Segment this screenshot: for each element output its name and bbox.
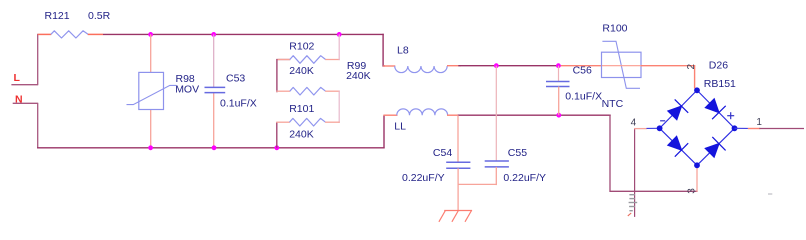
svg-text:R121: R121 [45, 10, 70, 22]
minus mark [660, 120, 665, 122]
diode D26-b (top-right) [705, 99, 725, 119]
svg-text:NTC: NTC [602, 98, 624, 110]
thermistor R100 body [602, 52, 642, 77]
stray mark [768, 193, 772, 195]
wire bridge pin4 stub [634, 128, 647, 130]
wire R99 right vertical to R101 right [338, 91, 340, 123]
wire C56 lower lead [558, 87, 560, 116]
wire LL left stub [383, 114, 397, 116]
junction at R98 top [148, 32, 153, 37]
wire R101 left vertical to bottom rail [276, 122, 278, 148]
bridge pin dots [657, 87, 738, 168]
varistor R98 diagonal [127, 85, 177, 104]
svg-text:0.1uF/X: 0.1uF/X [565, 90, 602, 102]
wire MOV upper lead [150, 34, 152, 72]
wire top rail to R98 junction [103, 33, 384, 35]
svg-text:L8: L8 [397, 45, 409, 57]
bridge pin4 lead [647, 127, 660, 129]
svg-text:2: 2 [686, 64, 697, 70]
wire L8 left stub [383, 65, 395, 67]
svg-text:C55: C55 [508, 147, 527, 159]
wire C53 upper lead [213, 34, 215, 87]
wire L8 right stub [447, 65, 461, 67]
wire R102 left stub [277, 60, 290, 93]
wire top rail corner down to L8 [383, 34, 385, 66]
junction at C53 top [211, 32, 216, 37]
resistor R101 [290, 118, 326, 126]
capacitor C56 plates [546, 81, 570, 83]
svg-text:0.22uF/Y: 0.22uF/Y [503, 172, 546, 184]
wire Y-cap common connector [458, 183, 497, 185]
wire C56 upper lead [558, 66, 560, 82]
svg-text:240K: 240K [289, 65, 314, 77]
wire power ground drop [634, 191, 636, 217]
bridge D26 diamond edges [660, 90, 735, 165]
inductor L8 [395, 66, 447, 73]
svg-text:3: 3 [686, 188, 697, 194]
junction at R102 right [337, 32, 342, 37]
wire R102 left corner salmon [278, 59, 291, 61]
svg-text:4: 4 [631, 118, 637, 129]
svg-text:R102: R102 [289, 40, 314, 52]
resistor R102 [290, 56, 326, 64]
wire L vertical to top rail [37, 34, 39, 85]
svg-text:MOV: MOV [175, 84, 199, 96]
wire R121 right stub [88, 33, 103, 35]
svg-text:LL: LL [394, 120, 406, 132]
junction at R98 bottom [148, 145, 153, 150]
wire R99 left stub [276, 90, 290, 92]
bridge pin1 lead [735, 127, 748, 129]
wire C55 upper lead [495, 66, 497, 161]
resistor R99 [290, 87, 326, 95]
earth ground symbol [439, 211, 472, 222]
wire R102 right vertical to top rail [338, 34, 340, 60]
wire N port lead [13, 102, 39, 104]
capacitor C53 plates [205, 86, 226, 88]
varistor R98 body [139, 72, 164, 109]
wire R100 left stub [558, 65, 602, 67]
power ground red tick [628, 213, 631, 216]
wire bridge pin4 vertical [634, 129, 636, 192]
wire C55 bottom lead [495, 167, 497, 185]
diode D26-c (left-bottom) [668, 136, 688, 156]
wire C54 upper lead [457, 115, 459, 162]
svg-text:RB151: RB151 [704, 78, 736, 90]
wire LL right stub [447, 114, 458, 116]
inductor LL [397, 109, 448, 115]
resistor R121 [51, 31, 88, 38]
wire N vertical to bottom rail [37, 103, 39, 148]
svg-text:R101: R101 [289, 103, 314, 115]
svg-text:D26: D26 [709, 60, 728, 72]
junction at C56 bottom [556, 113, 561, 118]
wire R101 left stub [276, 121, 290, 123]
diode D26-d (bottom-right) [705, 137, 725, 157]
wire C53 lower lead [213, 93, 215, 149]
wire L port lead [11, 84, 38, 86]
thermistor R100 diagonal [602, 41, 640, 88]
wire LL left vertical from bottom rail [383, 115, 385, 148]
junction at C55 top [494, 63, 499, 68]
wire R99 right stub [325, 90, 340, 92]
svg-text:C56: C56 [573, 64, 592, 76]
wire R101 right stub [325, 121, 340, 123]
wire R102 right stub [325, 59, 340, 61]
svg-text:0.1uF/X: 0.1uF/X [220, 98, 257, 110]
wire bridge pin3 lead [696, 165, 698, 192]
svg-text:C54: C54 [433, 147, 452, 159]
wire C54 bottom lead to earth [457, 168, 459, 210]
svg-text:0.22uF/Y: 0.22uF/Y [402, 172, 445, 184]
wire top right rail to R100 [458, 65, 558, 67]
svg-text:L: L [14, 72, 21, 84]
junction at C56 top [556, 63, 561, 68]
svg-text:C53: C53 [226, 72, 245, 84]
wire bottom rail (N net) [37, 147, 385, 149]
plus mark [727, 112, 734, 119]
wire R100 body crossing [602, 65, 641, 67]
wire LL rail corner down [610, 115, 698, 192]
junction at C53 bottom [212, 145, 217, 150]
wire output to edge [759, 128, 804, 130]
diode D26-a (left-top) [668, 99, 688, 119]
power ground symbol [629, 195, 638, 211]
wire top rail left (L net) [38, 33, 52, 35]
svg-text:240K: 240K [346, 70, 371, 82]
wire pin1 stub [748, 128, 760, 130]
capacitor C54 plates [446, 161, 470, 163]
wire MOV lower lead [150, 110, 152, 149]
svg-text:R100: R100 [602, 22, 627, 34]
junction at R101 left [274, 145, 279, 150]
svg-text:1: 1 [756, 117, 762, 128]
wire LL output rail [458, 114, 611, 116]
capacitor C55 plates [485, 160, 509, 162]
svg-text:0.5R: 0.5R [88, 10, 111, 22]
wire R100 right to bridge corner [641, 66, 697, 91]
svg-text:240K: 240K [289, 129, 314, 141]
